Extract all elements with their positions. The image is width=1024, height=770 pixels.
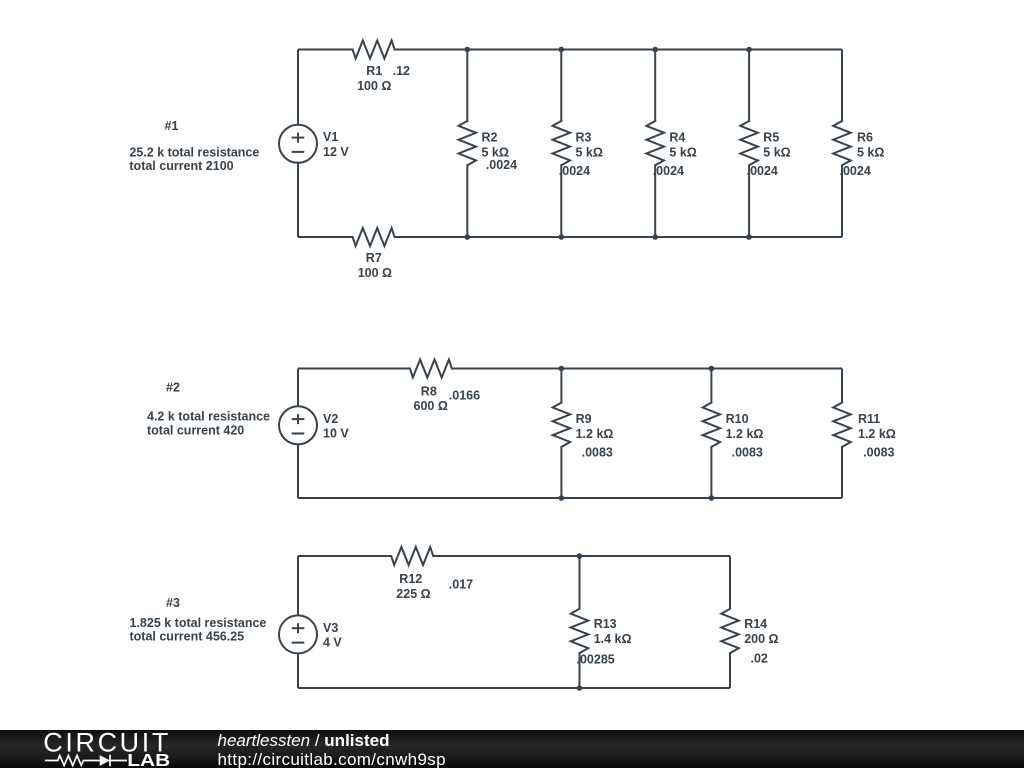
voltage source V2 xyxy=(279,406,349,444)
svg-text:R6: R6 xyxy=(857,131,873,145)
svg-text:4.2 k total resistance: 4.2 k total resistance xyxy=(147,409,270,423)
svg-text:#2: #2 xyxy=(166,381,180,395)
svg-text:200 Ω: 200 Ω xyxy=(744,632,778,646)
junction node bottom of R2 xyxy=(465,234,471,240)
wire: bottom net of circuit 3 xyxy=(298,687,730,689)
node annotation #3 xyxy=(130,596,267,643)
resistor R8 xyxy=(410,360,480,414)
wire: branch R13 vertical xyxy=(579,556,581,688)
wire: left branch with V2 xyxy=(297,369,299,499)
svg-text:R13: R13 xyxy=(594,617,617,631)
footer title: author / title xyxy=(218,731,390,751)
resistor R14 xyxy=(721,609,778,666)
svg-text:100 Ω: 100 Ω xyxy=(358,266,392,280)
svg-text:.017: .017 xyxy=(449,577,473,591)
svg-text:.02: .02 xyxy=(751,652,768,666)
svg-text:.0024: .0024 xyxy=(653,164,684,178)
svg-text:5 kΩ: 5 kΩ xyxy=(857,145,884,159)
svg-text:600 Ω: 600 Ω xyxy=(414,399,448,413)
svg-text:.0083: .0083 xyxy=(863,445,894,459)
svg-text:1.825 k total resistance: 1.825 k total resistance xyxy=(130,616,267,630)
svg-text:100 Ω: 100 Ω xyxy=(357,79,391,93)
svg-text:R14: R14 xyxy=(744,617,767,631)
CircuitLab logo diode arrow xyxy=(100,755,110,766)
svg-text:#1: #1 xyxy=(165,119,179,133)
junction node bottom of R4 xyxy=(652,234,658,240)
voltage source V1 xyxy=(279,125,349,163)
svg-text:R7: R7 xyxy=(366,251,382,265)
resistor R13 xyxy=(571,609,632,667)
svg-text:10 V: 10 V xyxy=(323,426,349,440)
svg-text:R1: R1 xyxy=(366,64,382,78)
junction node top of R10 xyxy=(709,366,715,372)
junction node bottom of R13 xyxy=(577,685,583,691)
svg-text:1.2 kΩ: 1.2 kΩ xyxy=(576,427,614,441)
svg-text:.0024: .0024 xyxy=(840,164,871,178)
svg-text:V1: V1 xyxy=(323,130,338,144)
wire: top net of circuit 3 xyxy=(298,555,730,557)
node annotation #2 xyxy=(147,381,270,438)
wire: left branch with V1 xyxy=(297,50,299,238)
svg-text:.0024: .0024 xyxy=(747,164,778,178)
svg-text:R12: R12 xyxy=(399,572,422,586)
wire: bottom net of circuit 2 xyxy=(298,497,842,499)
svg-text:total current 420: total current 420 xyxy=(147,423,244,437)
svg-text:.0024: .0024 xyxy=(486,158,517,172)
wire: branch R3 vertical xyxy=(560,50,562,238)
svg-text:total current 2100: total current 2100 xyxy=(129,159,233,173)
svg-text:R5: R5 xyxy=(763,131,779,145)
svg-text:R2: R2 xyxy=(482,131,498,145)
resistor R9 xyxy=(553,403,614,460)
wire: bottom net of circuit 1 xyxy=(298,236,842,238)
resistor R5 xyxy=(740,121,790,178)
junction node top of R4 xyxy=(652,47,658,53)
svg-text:R11: R11 xyxy=(858,412,880,426)
CircuitLab logo resistor zigzag lead xyxy=(45,754,127,765)
svg-text:R9: R9 xyxy=(576,412,592,426)
svg-text:.0166: .0166 xyxy=(449,389,480,403)
wire: branch R2 vertical xyxy=(466,50,468,238)
svg-text:#3: #3 xyxy=(166,596,180,610)
junction node bottom of R9 xyxy=(559,495,565,501)
svg-text:5 kΩ: 5 kΩ xyxy=(576,145,603,159)
wire: top net of circuit 1 xyxy=(298,49,842,51)
resistor R3 xyxy=(553,121,603,178)
svg-text:.0024: .0024 xyxy=(559,164,590,178)
svg-text:R10: R10 xyxy=(726,412,749,426)
svg-text:5 kΩ: 5 kΩ xyxy=(669,145,696,159)
junction node top of R3 xyxy=(559,47,565,53)
wire: right edge branch circuit 1 xyxy=(841,50,843,238)
svg-text:LAB: LAB xyxy=(127,750,170,769)
resistor R2 xyxy=(459,121,518,172)
junction node top of R5 xyxy=(746,47,752,53)
footer url xyxy=(218,750,446,770)
wire: branch R10 vertical xyxy=(710,369,712,499)
resistor R11 xyxy=(833,403,896,460)
wire: top net of circuit 2 xyxy=(298,368,842,370)
svg-text:1.4 kΩ: 1.4 kΩ xyxy=(594,632,632,646)
wire: branch R4 vertical xyxy=(654,50,656,238)
junction node top of R9 xyxy=(559,366,565,372)
svg-text:V2: V2 xyxy=(323,412,338,426)
resistor R10 xyxy=(703,403,764,460)
svg-text:225 Ω: 225 Ω xyxy=(396,587,430,601)
svg-text:V3: V3 xyxy=(323,621,338,635)
svg-text:1.2 kΩ: 1.2 kΩ xyxy=(858,427,896,441)
svg-text:25.2 k total resistance: 25.2 k total resistance xyxy=(129,146,259,160)
junction node top of R13 xyxy=(577,553,583,559)
wire: left branch with V3 xyxy=(297,556,299,688)
svg-text:.0083: .0083 xyxy=(732,445,763,459)
svg-text:.0083: .0083 xyxy=(582,445,613,459)
node annotation #1 xyxy=(129,119,259,173)
svg-text:R3: R3 xyxy=(576,131,592,145)
resistor R1 xyxy=(353,41,410,93)
svg-text:1.2 kΩ: 1.2 kΩ xyxy=(726,427,764,441)
footer bar xyxy=(0,730,1024,769)
svg-text:.00285: .00285 xyxy=(577,652,615,666)
svg-text:total current 456.25: total current 456.25 xyxy=(130,629,245,643)
junction node bottom of R5 xyxy=(746,234,752,240)
svg-text:.12: .12 xyxy=(393,64,410,78)
junction node bottom of R10 xyxy=(709,495,715,501)
junction node top of R2 xyxy=(465,47,471,53)
resistor R4 xyxy=(646,121,696,178)
voltage source V3 xyxy=(279,615,342,653)
resistor R6 xyxy=(833,121,884,178)
svg-text:12 V: 12 V xyxy=(323,145,349,159)
resistor R12 xyxy=(391,547,473,601)
svg-text:R8: R8 xyxy=(421,385,437,399)
resistor R7 xyxy=(353,228,395,280)
svg-text:5 kΩ: 5 kΩ xyxy=(763,145,790,159)
wire: branch R9 vertical xyxy=(560,369,562,499)
svg-text:4 V: 4 V xyxy=(323,635,342,649)
junction node bottom of R3 xyxy=(559,234,565,240)
wire: right edge branch circuit 2 xyxy=(841,369,843,499)
wire: branch R5 vertical xyxy=(748,50,750,238)
svg-text:R4: R4 xyxy=(669,131,685,145)
wire: right edge branch circuit 3 xyxy=(729,556,731,688)
